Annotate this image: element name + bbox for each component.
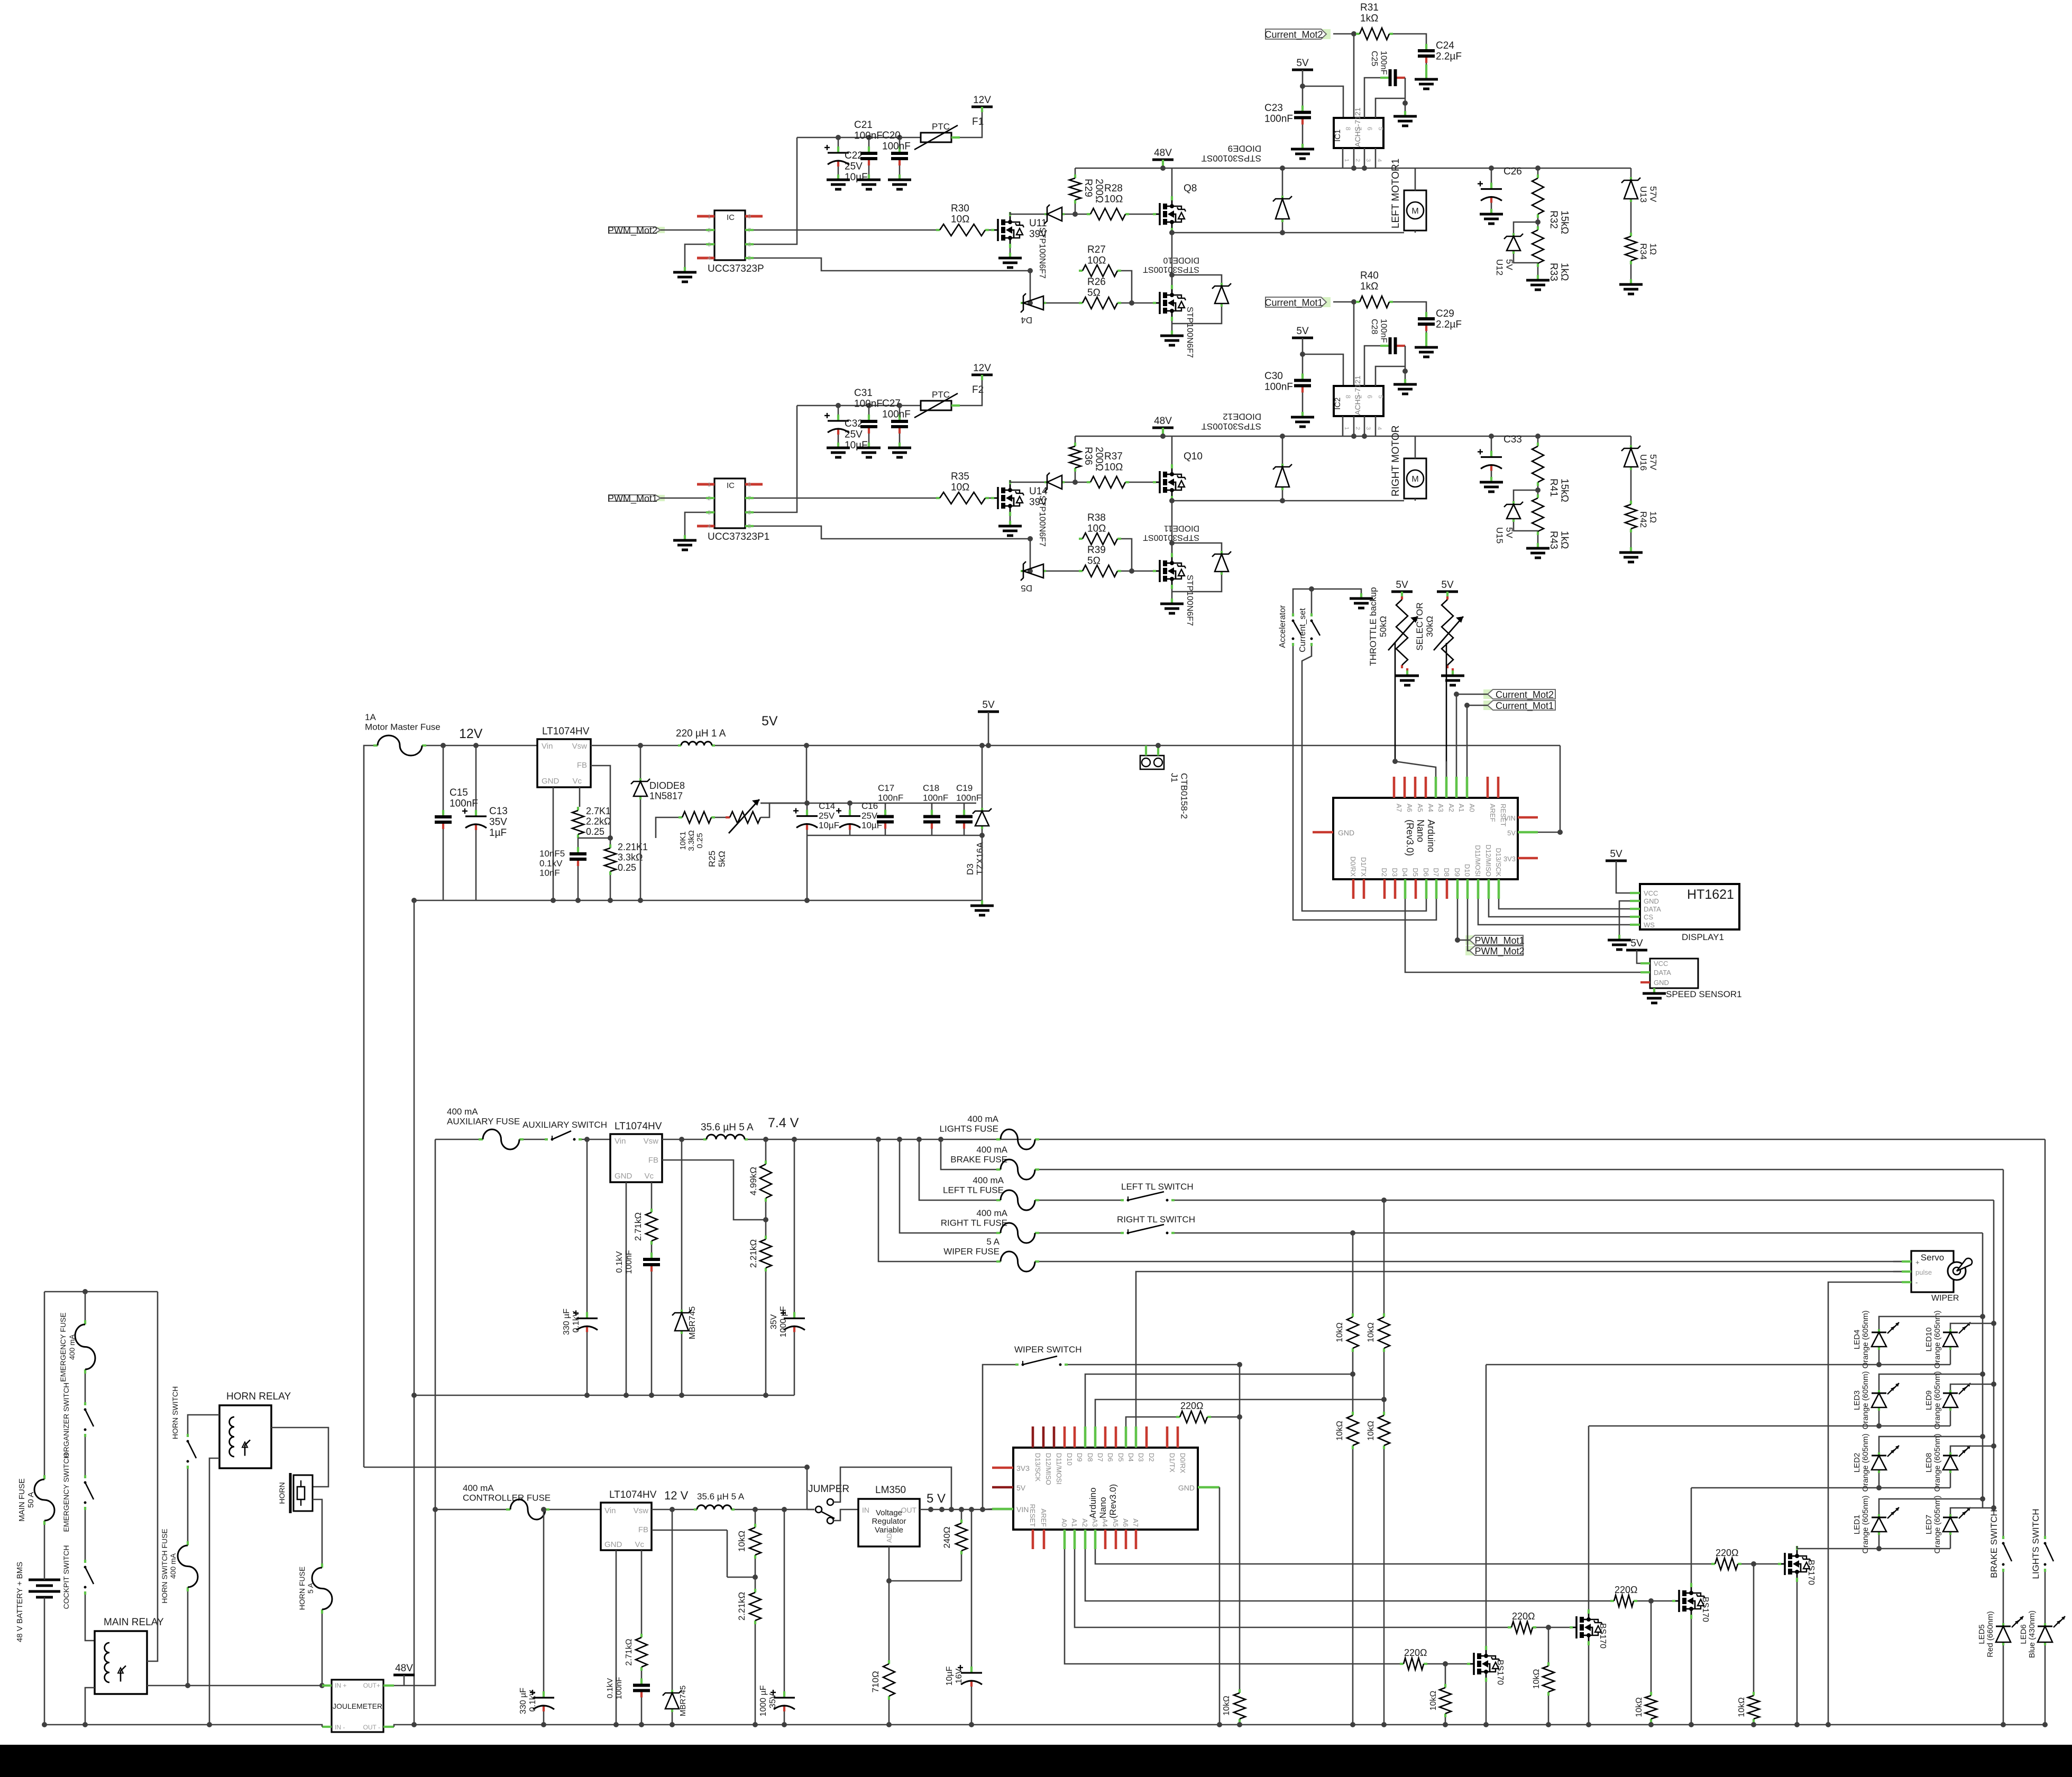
net flag PWM_Mot1 [1465,935,1474,945]
wire FB2 [662,1160,766,1220]
wire wiper fuse to servo plus [1039,1261,1911,1263]
switch ORGANIZER [85,1374,86,1402]
gate driver IC IC UCC37323P1 [714,478,745,528]
svg-text:10nF: 10nF [539,868,560,878]
ground for switches [1360,593,1362,599]
wire LED7 top to right rail [1950,1508,1994,1514]
svg-text:25V: 25V [845,161,863,172]
svg-text:UCC37323P1: UCC37323P1 [708,531,769,542]
divider mid node [755,1559,756,1589]
led LED9 orange 605nm [1949,1390,1951,1393]
wire low-side source to ground [1171,589,1173,599]
svg-text:OUT+: OUT+ [363,1682,380,1689]
net flag Current_Mot2 input [1483,689,1492,699]
svg-text:D11/MOSI: D11/MOSI [1055,1453,1063,1485]
fuse MAIN 50A [43,1475,45,1479]
svg-text:D6: D6 [1422,868,1430,877]
svg-text:5V: 5V [982,699,995,711]
svg-text:D5: D5 [1411,868,1419,877]
svg-text:LED4: LED4 [1853,1330,1862,1350]
arduino2 pin AREF [1043,1530,1046,1549]
svg-text:5: 5 [1377,127,1385,131]
svg-text:A0: A0 [1060,1518,1068,1527]
svg-text:C16: C16 [861,801,878,811]
wire horn switch fuse to joulemeter line [187,1591,189,1686]
svg-text:10nF5: 10nF5 [539,849,565,859]
svg-text:25V: 25V [845,429,863,440]
capacitor 1000uF 35V out3 [784,1509,785,1690]
resistor 220 ohm wiper [1176,1416,1180,1418]
fuse brake 400mA [996,1168,1001,1171]
svg-text:D13/SCK: D13/SCK [1495,848,1502,877]
wire D8 sense right TL [1085,1374,1353,1426]
svg-text:R28: R28 [1104,183,1123,194]
wire relay contact from top rail [147,1292,158,1661]
svg-text:Orange (605nm): Orange (605nm) [1933,1433,1942,1491]
svg-text:LIGHTS SWITCH: LIGHTS SWITCH [2031,1508,2041,1579]
svg-text:BS170: BS170 [1701,1597,1710,1622]
vertical drop to wiper row [876,1137,881,1142]
arduino2 pin D1/TX [1166,1426,1169,1448]
svg-text:BRAKE FUSE: BRAKE FUSE [950,1154,1007,1164]
arduino2 pin D7 [1094,1426,1097,1448]
svg-text:12 V: 12 V [664,1489,689,1502]
svg-text:A1: A1 [1070,1518,1078,1527]
svg-text:2: 2 [1354,159,1361,162]
svg-text:2.71kΩ: 2.71kΩ [625,1638,634,1665]
wire fuse to regulator Vin [426,745,537,747]
svg-text:SELECTOR: SELECTOR [1415,602,1425,650]
svg-text:AUXILIARY FUSE: AUXILIARY FUSE [447,1116,520,1126]
wire low-side drain up to motor node [1171,543,1173,553]
Arduino Nano Rev3.0 #1 [1333,798,1518,879]
svg-text:200Ω: 200Ω [1094,447,1105,471]
svg-text:A2: A2 [1081,1518,1089,1527]
HT1621 pin GND [1630,900,1640,902]
svg-text:10kΩ: 10kΩ [1335,1322,1344,1342]
svg-text:10Ω: 10Ω [951,214,969,225]
12V distribution rail [364,1467,807,1468]
sensor pin5 wire to ground [1376,98,1405,118]
resistor R38 10 ohm [1079,538,1083,540]
wire motor bottom to output node [1415,231,1416,233]
svg-text:R25: R25 [707,851,717,867]
svg-text:+: + [1915,1258,1920,1266]
svg-text:PWM_Mot1: PWM_Mot1 [608,493,657,504]
svg-text:BS170: BS170 [1496,1660,1505,1685]
wire 12V rail drop to jumper [806,1467,808,1509]
capacitor C24 2.2uF [1393,34,1426,42]
svg-text:D12/MISO: D12/MISO [1484,844,1492,877]
led LED8 orange 605nm [1949,1452,1951,1456]
svg-text:-: - [1915,1278,1918,1286]
svg-text:400 mA: 400 mA [447,1107,478,1117]
svg-text:LED10: LED10 [1924,1328,1933,1352]
svg-text:1µF: 1µF [489,827,507,839]
svg-text:C23: C23 [1264,103,1283,114]
svg-text:WIPER SWITCH: WIPER SWITCH [1014,1345,1082,1355]
bottom black border bar [0,1745,2072,1777]
wire regulator2 GND to bus [626,1182,627,1395]
resistor 220 ohm stage 3 [1610,1600,1614,1602]
svg-text:C26: C26 [1503,166,1522,177]
led LED3 orange 605nm [1878,1390,1880,1393]
svg-text:AREF: AREF [1489,804,1497,822]
resistor R42 1 ohm [1630,470,1632,501]
fuse motor master 1A [373,744,378,747]
wire FB [591,766,610,838]
svg-text:57V: 57V [1648,186,1658,202]
12V cap rail wire [797,405,921,407]
svg-text:U12: U12 [1495,259,1505,275]
svg-text:RIGHT TL FUSE: RIGHT TL FUSE [941,1218,1007,1228]
svg-text:OUT: OUT [901,1506,916,1514]
wire arduino2 GND to bus [1219,1487,1221,1725]
svg-text:220 µH 1 A: 220 µH 1 A [676,728,726,739]
svg-text:TZX16A: TZX16A [975,842,985,875]
svg-text:5V: 5V [1396,579,1408,591]
arduino1 pin D12/MISO [1488,879,1490,899]
sensor bottom pin [1353,148,1355,168]
wire to left TL switch [1039,1200,1121,1201]
arduino2 pin D3 [1135,1426,1138,1448]
svg-text:7.4 V: 7.4 V [768,1116,799,1130]
led LED1 orange 605nm [1878,1514,1880,1517]
svg-text:R31: R31 [1360,2,1379,13]
ground under throttle pot [1406,670,1408,676]
sensor pin6 wire [1364,78,1380,118]
wire D10 to PWM_Mot2 [1468,899,1470,951]
svg-text:A4: A4 [1101,1518,1109,1527]
switch RIGHT TL [1121,1232,1124,1234]
wire IC pin7 to gate resistor [754,498,936,499]
wire 5V rail down to Arduino 5V pin [1538,745,1560,832]
wire IC pin6 up to 12V cap rail [754,137,797,244]
gate driver IC IC UCC37323P [714,210,745,260]
svg-text:C20: C20 [882,130,901,141]
wire PWM to gate driver IC [661,498,706,499]
svg-text:5V: 5V [1016,1484,1026,1492]
low-side gate network diode D4 [1030,271,1031,303]
arduino1 pin A0 [1466,777,1469,798]
arduino2 pin D6 [1104,1426,1107,1448]
arduino2 pin D2 [1145,1426,1148,1448]
svg-text:R26: R26 [1087,277,1106,288]
svg-text:D8: D8 [1443,868,1451,877]
wire PWM to gate driver IC [661,229,706,231]
svg-text:R42: R42 [1638,511,1648,528]
ground under C23 [1301,144,1304,149]
ground under R42 [1630,532,1632,547]
svg-text:4: 4 [708,523,711,530]
svg-text:7: 7 [1355,127,1363,131]
12V output wire [735,1509,814,1511]
power symbol 48V [1152,427,1173,429]
resistor R28 10 ohm gate resistor [1087,213,1090,215]
svg-text:Vc: Vc [635,1540,644,1549]
svg-text:10kΩ: 10kΩ [1367,1421,1376,1441]
speed sensor pin GND [1640,981,1650,983]
svg-text:U16: U16 [1638,454,1648,471]
wire regulator3 GND to bus [616,1550,617,1725]
svg-text:10kΩ: 10kΩ [1222,1696,1231,1716]
svg-text:CONTROLLER FUSE: CONTROLLER FUSE [463,1493,551,1503]
svg-text:D5: D5 [1117,1453,1125,1462]
svg-text:100nF: 100nF [923,793,948,803]
capacitor C18 100nF [931,803,933,810]
svg-text:LED2: LED2 [1853,1453,1862,1473]
svg-text:FB: FB [638,1525,648,1534]
wire PTC to 12V [969,112,982,137]
inductor 35.6uH 5A [703,1138,707,1140]
resistor 10k pulldown right-TL [1352,1412,1354,1415]
svg-text:4: 4 [1376,427,1382,430]
snubber diode DIODE10 STPS30100ST [1172,275,1222,283]
svg-text:IN: IN [862,1506,869,1514]
svg-text:Voltage: Voltage [876,1508,902,1517]
wire LED10 top to right rail [1950,1323,1994,1329]
arduino1 pin A7 [1393,777,1396,798]
svg-text:10Ω: 10Ω [1104,462,1123,473]
wire switches to ground [1293,589,1361,613]
arduino2 pin D0/RX [1177,1426,1179,1448]
svg-text:D1/TX: D1/TX [1360,857,1368,877]
svg-text:JUMPER: JUMPER [808,1484,849,1495]
wiper gate column down to pulldown [1239,1365,1241,1689]
svg-text:1000 µF: 1000 µF [759,1685,768,1716]
svg-text:2.21K1: 2.21K1 [618,842,648,852]
vertical drop to left TL row [916,1137,922,1142]
svg-text:Orange (605nm): Orange (605nm) [1861,1433,1870,1491]
PTC resettable fuse F2 [921,401,951,410]
svg-text:220Ω: 220Ω [1615,1585,1638,1595]
48V power rail wire [1075,436,1631,437]
svg-text:7: 7 [748,495,751,502]
svg-text:LED9: LED9 [1924,1391,1933,1411]
switch WIPER [983,1365,1015,1509]
wire motor to 48V rail [1415,168,1416,190]
svg-text:MBR745: MBR745 [679,1686,687,1716]
svg-text:10µF: 10µF [819,821,839,831]
wire left TL rail to sense divider [1383,1200,1385,1313]
svg-text:7: 7 [748,227,751,234]
wire BS170 stage 4 source to bus [1796,1582,1798,1725]
arduino2 pin A7 [1135,1530,1138,1549]
wire LED9 top to right rail [1950,1384,1994,1390]
arduino1 pin D1/TX [1363,879,1365,899]
svg-text:LED8: LED8 [1924,1453,1933,1473]
zener U12 5V clamp [1514,222,1538,233]
low-side gate network diode D5 [1030,539,1031,571]
wire flag to A0 [1467,705,1488,777]
ground for speed sensor [1653,988,1655,993]
arduino2 pin D9 [1074,1426,1076,1448]
mosfet BS170 stage 4 [1778,1563,1781,1565]
arduino1 pin A4 [1425,777,1427,798]
svg-text:D8: D8 [1086,1453,1094,1462]
arduino1 pin D9 [1456,879,1459,899]
zener diode at U14 drain [1044,481,1047,483]
capacitor C23 100nF [1302,86,1304,106]
svg-text:6: 6 [748,510,751,516]
wire low-side source to ground [1171,321,1173,330]
ground under R33 [1537,267,1539,275]
svg-text:10Ω: 10Ω [1087,523,1106,535]
svg-text:35.6 µH 5 A: 35.6 µH 5 A [701,1122,754,1133]
svg-text:50 A: 50 A [26,1492,35,1508]
svg-text:BRAKE SWITCH: BRAKE SWITCH [1989,1509,1999,1578]
svg-text:Arduino: Arduino [1426,820,1436,852]
wire BS170 stage 1 drain up to LED row [1486,1365,1487,1646]
svg-text:C17: C17 [878,783,894,793]
svg-text:R37: R37 [1104,451,1123,462]
svg-text:100nF: 100nF [450,798,478,809]
wire D4 to 220R wiper gate [1126,1417,1176,1426]
wire to gate node stage 3 [1637,1600,1672,1602]
svg-text:DIODE10: DIODE10 [1163,256,1199,265]
wire LED2 top to left rail [1879,1437,1983,1452]
svg-text:3: 3 [1365,159,1371,162]
svg-text:330 µF: 330 µF [519,1688,528,1714]
fuse wiper 5A [996,1260,1001,1263]
resistor R34 1 ohm [1630,202,1632,233]
svg-text:Blue (430nm): Blue (430nm) [2028,1610,2037,1658]
svg-text:BS170: BS170 [1807,1560,1816,1585]
arduino1 pin A2 [1445,777,1448,798]
svg-text:Orange (605nm): Orange (605nm) [1933,1495,1942,1553]
potentiometer R25 5k [726,816,730,818]
svg-text:8: 8 [748,214,751,220]
svg-text:R35: R35 [951,471,969,482]
svg-text:2.2kΩ: 2.2kΩ [586,816,611,826]
switch AUXILIARY [545,1138,548,1140]
svg-text:A1: A1 [1457,804,1465,812]
svg-text:100nF: 100nF [882,409,911,420]
svg-text:5V: 5V [1507,829,1516,837]
sensor bottom pin [1364,148,1365,168]
svg-text:Servo: Servo [1921,1253,1944,1263]
catch diode DIODE8 1N5817 [638,743,643,748]
wire Vc3 comp network [641,1550,643,1634]
arduino1 pin D10 [1466,879,1469,899]
resistor R40 1k [1356,301,1360,303]
gate pulldown 10k stage 2 [1548,1627,1550,1662]
svg-text:0.25: 0.25 [695,833,704,848]
divider resistor R43 1k [1537,494,1539,498]
svg-text:Vsw: Vsw [644,1137,659,1146]
aux ground bus [414,1395,794,1396]
svg-text:U15: U15 [1495,527,1505,544]
resistor 10k pulldown wiper [1239,1689,1241,1693]
svg-text:12V: 12V [459,726,483,741]
power symbol 12V [971,374,993,376]
svg-text:Orange (605nm): Orange (605nm) [1861,1310,1870,1368]
wire ground bus down left side [414,900,415,1395]
feedback node wire [765,1202,767,1236]
svg-text:5 A: 5 A [986,1237,1000,1247]
resistor 10k sense upper right-TL [1352,1313,1354,1317]
svg-text:STPS30100ST: STPS30100ST [1202,421,1261,431]
svg-text:0.1kV: 0.1kV [572,1311,581,1332]
svg-text:PTC: PTC [932,390,950,400]
wire relay coil low to bus [85,1688,95,1725]
svg-text:5 V: 5 V [927,1491,946,1506]
wire level shifter drain to gate node [1010,212,1044,214]
svg-text:1: 1 [1343,159,1350,162]
svg-text:RIGHT MOTOR: RIGHT MOTOR [1390,426,1401,496]
power symbol 48V [1152,159,1173,161]
ground at gate driver [684,267,686,272]
power symbol 5V sensor [1292,69,1313,71]
svg-text:3.3kΩ: 3.3kΩ [687,830,696,851]
mosfet Q8 STP100N6F7 high-side [1153,213,1156,215]
capacitor 10nF 0.1kV [577,838,579,847]
fuse controller 400mA [506,1508,510,1511]
svg-text:35V: 35V [769,1314,778,1329]
arduino2 pin GND [1198,1486,1220,1489]
led LED5 red 660nm [2003,1572,2004,1623]
svg-text:3V3: 3V3 [1503,855,1516,863]
svg-text:D3: D3 [1391,868,1399,877]
svg-text:M: M [1411,475,1418,484]
wire BS170 stage 4 drain up to LED row [1796,1546,1798,1549]
svg-text:Orange (605nm): Orange (605nm) [1933,1310,1942,1368]
wire IC pin7 to gate resistor [754,229,936,231]
svg-text:MAIN FUSE: MAIN FUSE [17,1478,26,1522]
switch HORN [187,1434,189,1437]
wire to right TL switch [1039,1232,1121,1234]
svg-text:AREF: AREF [1040,1508,1048,1527]
svg-text:LM350: LM350 [875,1485,906,1496]
wire fuse to regulator3 Vin [549,1509,601,1511]
capacitor C31 100nF [868,406,870,415]
wire level shifter source to ground [1010,516,1011,521]
svg-text:ADJ: ADJ [885,1530,893,1543]
svg-text:GND: GND [1654,979,1669,987]
arduino2 pin D5 [1115,1426,1117,1448]
arduino1 pin GND [1313,831,1333,834]
divider resistor R33 1k [1537,226,1539,230]
resistor 2.21K1 3.3k 0.25 [609,844,611,848]
switch BRAKE [2002,1536,2004,1539]
diode MBR745 #2 [670,1507,675,1512]
ground under C21 [868,174,870,180]
svg-text:WIPER: WIPER [1931,1294,1959,1303]
svg-text:1: 1 [1343,427,1350,430]
wire LM350 OUT to Arduino2 VIN [920,1509,1013,1511]
svg-text:MBR745: MBR745 [688,1306,697,1339]
svg-text:C33: C33 [1503,434,1522,445]
resistor R37 10 ohm gate resistor [1087,481,1090,483]
svg-text:WS: WS [1644,921,1655,929]
capacitor C19 100nF [964,803,965,810]
svg-text:IC2: IC2 [1333,398,1342,410]
current flag Current_Mot1 [1322,297,1331,307]
ground right of sensor [1404,111,1406,116]
arduino1 pin D0/RX [1352,879,1355,899]
inductor 35.6uH 5A #2 [694,1508,697,1511]
svg-text:C32: C32 [845,418,863,429]
arduino2 pin A0 [1063,1530,1066,1549]
svg-text:1Ω: 1Ω [1648,243,1658,255]
wire to gate node stage 1 [1427,1663,1467,1665]
svg-text:(Rev3.0): (Rev3.0) [1108,1484,1118,1518]
svg-text:200Ω: 200Ω [1094,179,1105,203]
Arduino Nano Rev3.0 #2 [1013,1448,1198,1530]
arduino2 pin A3 [1094,1530,1097,1549]
mosfet BS170 stage 2 [1570,1626,1573,1628]
arduino1 pin A5 [1414,777,1417,798]
